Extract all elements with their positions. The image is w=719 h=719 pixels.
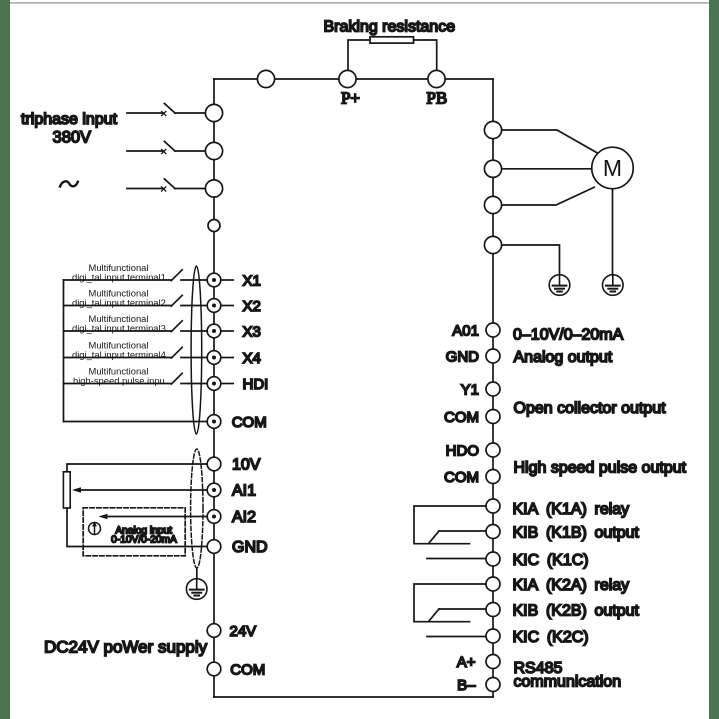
motor M <box>592 147 634 189</box>
slash: X3 switch <box>171 321 182 332</box>
svg-text:KIB (K2B) output: KIB (K2B) output <box>513 602 640 619</box>
terminal 10V <box>207 457 221 471</box>
svg-text:P+: P+ <box>341 89 360 108</box>
terminal P+ <box>339 70 356 87</box>
wire: left DC bus vertical <box>213 79 215 697</box>
switch S1 blade <box>164 103 175 113</box>
svg-text:COM: COM <box>444 409 479 426</box>
terminal HDI <box>207 377 221 391</box>
switch S1 contact x-mark <box>162 111 166 115</box>
svg-text:KIB (K1B) output: KIB (K1B) output <box>513 524 640 541</box>
terminal COM oc <box>486 410 500 424</box>
slash: HDI switch <box>171 373 182 384</box>
shield ellipse: analog inputs (dashed) <box>191 449 203 568</box>
slash: X2 switch <box>171 295 182 306</box>
svg-text:380V: 380V <box>53 129 92 147</box>
wire: braking resistor right riser <box>414 40 437 71</box>
terminal: right bus joint 4 <box>484 236 501 253</box>
terminal 24V <box>207 624 221 638</box>
switch S3 input wire <box>127 188 163 190</box>
switch S2 contact x-mark <box>162 149 166 153</box>
switch S3 contact x-mark <box>162 187 166 191</box>
terminal K2C <box>486 629 500 643</box>
wire: AI2 input <box>106 516 207 518</box>
terminal A01 <box>486 323 500 337</box>
svg-text:COM: COM <box>232 414 267 431</box>
terminal R <box>205 104 222 121</box>
wire: X4 stub <box>221 357 233 359</box>
wire: motor phase W <box>502 187 595 205</box>
terminal COM bottom <box>207 662 221 676</box>
wire: X4 input row <box>64 357 208 359</box>
wire: top bus horizontal <box>214 78 493 80</box>
svg-text:X2: X2 <box>243 298 261 315</box>
wire: X2 stub <box>221 305 233 307</box>
svg-text:COM: COM <box>444 469 479 486</box>
terminal GND analog <box>207 540 221 554</box>
potentiometer body <box>63 472 70 508</box>
relay K2 blade <box>429 609 440 622</box>
ground: shield earth <box>186 579 207 600</box>
svg-text:X3: X3 <box>243 324 261 341</box>
switch S1 input wire <box>127 112 163 114</box>
svg-text:KIC (K2C): KIC (K2C) <box>513 629 589 646</box>
wire: bottom return horizontal <box>214 696 493 698</box>
terminal K2B <box>486 603 500 617</box>
svg-text:High speed pulse output: High speed pulse output <box>514 460 687 477</box>
ground: PE earth <box>549 275 570 296</box>
wire: digital input common vertical <box>63 280 65 422</box>
terminal COM digital <box>207 415 221 429</box>
terminal K1A <box>486 499 500 513</box>
AC tilde symbol <box>60 181 78 186</box>
terminal K1C <box>486 552 500 566</box>
terminal GND output <box>486 349 500 363</box>
terminal AI2 <box>207 510 221 524</box>
top gray rule <box>0 2 719 4</box>
wire: X2 input row <box>64 305 208 307</box>
wire: HDI stub <box>221 383 233 385</box>
switch S3 blade <box>164 179 175 189</box>
svg-text:HDO: HDO <box>446 443 479 460</box>
svg-text:DC24V poWer supply: DC24V poWer supply <box>44 638 208 657</box>
svg-text:digi_tal input terminal3: digi_tal input terminal3 <box>72 322 166 333</box>
label: multifunctional high-speed pulse input <box>73 365 165 386</box>
wire: motor frame to ground <box>612 189 614 275</box>
wire: motor phase U <box>502 130 598 153</box>
terminal T <box>205 180 222 197</box>
svg-text:A01: A01 <box>452 323 479 340</box>
svg-text:digi_tal input terminal1: digi_tal input terminal1 <box>72 271 166 282</box>
svg-text:GND: GND <box>446 349 480 366</box>
wire: switch S2 to terminal S <box>175 150 206 152</box>
svg-text:AI1: AI1 <box>232 483 256 500</box>
svg-text:digi_tal input terminal2: digi_tal input terminal2 <box>72 297 166 308</box>
relay K1 blade <box>429 531 440 544</box>
terminal AI1 <box>207 483 221 497</box>
terminal K2A <box>486 577 500 591</box>
wire: X3 stub <box>221 330 233 332</box>
wire: X1 input row <box>64 279 208 281</box>
current source symbol <box>89 522 101 535</box>
wire: 10V supply to potentiometer <box>67 464 207 472</box>
svg-text:PB: PB <box>426 89 447 108</box>
svg-text:Braking resistance: Braking resistance <box>323 19 455 36</box>
terminal X3 <box>207 324 221 338</box>
label: multifunctional digital input terminal1 <box>72 262 166 283</box>
svg-text:high-speed pulse inpu: high-speed pulse inpu <box>73 375 165 386</box>
terminal: right bus joint 2 <box>484 160 501 177</box>
terminal: small joint <box>208 220 220 232</box>
terminal HDO <box>486 443 500 457</box>
svg-text:Open collector output: Open collector output <box>514 400 667 417</box>
shield ellipse: digital inputs <box>191 266 202 434</box>
terminal A+ <box>486 655 500 669</box>
wire: switch S1 to terminal R <box>175 112 206 114</box>
terminal COM pulse <box>486 470 500 484</box>
switch S2 input wire <box>127 150 163 152</box>
terminal: right bus joint 1 <box>484 121 501 138</box>
slash: X1 switch <box>171 270 182 281</box>
wire: right bus vertical <box>492 79 494 697</box>
svg-text:10V: 10V <box>232 457 261 474</box>
wire: shield to earth <box>196 568 198 579</box>
wire: relay K2 NO to KIB <box>439 608 487 610</box>
terminal: top bus joint <box>257 70 274 87</box>
svg-text:AI2: AI2 <box>232 509 256 526</box>
svg-text:0–10V/0–20mA: 0–10V/0–20mA <box>513 326 624 343</box>
svg-text:0-10V/0-20mA: 0-10V/0-20mA <box>111 535 177 546</box>
slash: X4 switch <box>171 347 182 358</box>
svg-text:triphase input: triphase input <box>21 111 118 128</box>
relay K2 common L-wire <box>414 584 487 622</box>
dashed box: analog input group <box>83 508 185 556</box>
wire: braking resistor left riser <box>348 40 370 71</box>
wire: HDI input row <box>64 383 208 385</box>
switch S2 blade <box>164 141 175 151</box>
svg-text:KIC (K1C): KIC (K1C) <box>513 552 589 569</box>
wire: X3 input row <box>64 330 208 332</box>
svg-text:Analog output: Analog output <box>514 349 613 366</box>
terminal S <box>205 142 222 159</box>
svg-text:X4: X4 <box>243 350 261 367</box>
svg-text:GND: GND <box>232 539 268 556</box>
wire: relay K1 NC to KIC <box>427 558 487 560</box>
svg-text:M: M <box>603 155 622 181</box>
wire: PE to ground <box>502 245 560 275</box>
svg-text:KIA (K1A) relay: KIA (K1A) relay <box>513 501 630 518</box>
arrowhead: AI2 input <box>99 514 108 520</box>
wire: COM input row <box>64 421 208 423</box>
label: multifunctional digital input terminal2 <box>72 287 166 308</box>
terminal X4 <box>207 351 221 365</box>
wire: motor phase V <box>502 168 592 170</box>
svg-text:B–: B– <box>457 677 476 694</box>
arrowhead: AI1 wiper <box>72 487 81 493</box>
wire: potentiometer low side to GND <box>67 508 207 547</box>
label: multifunctional digital input terminal3 <box>72 313 166 334</box>
right green sidebar <box>709 0 719 719</box>
terminal X1 <box>207 273 221 287</box>
terminal Y1 <box>486 382 500 396</box>
svg-text:Y1: Y1 <box>461 382 479 399</box>
svg-text:digi_tal input terminal4: digi_tal input terminal4 <box>72 349 166 360</box>
svg-text:communication: communication <box>514 674 622 691</box>
wire: relay K1 NO to KIB <box>439 530 487 532</box>
ground: motor earth <box>603 275 624 296</box>
resistor: braking resistance <box>370 37 414 43</box>
svg-text:HDI: HDI <box>243 376 269 393</box>
terminal B- <box>486 678 500 692</box>
wire: X1 stub <box>221 279 233 281</box>
terminal X2 <box>207 299 221 313</box>
svg-text:KIA (K2A) relay: KIA (K2A) relay <box>513 577 630 594</box>
svg-text:24V: 24V <box>230 623 257 640</box>
svg-text:A+: A+ <box>457 654 476 671</box>
terminal K1B <box>486 525 500 539</box>
terminal: right bus joint 3 <box>484 196 501 213</box>
left green sidebar <box>0 0 10 719</box>
label: multifunctional digital input terminal4 <box>72 339 166 360</box>
wire: switch S3 to terminal T <box>175 188 206 190</box>
wire: relay K2 NC to KIC <box>427 636 487 638</box>
terminal PB <box>428 70 445 87</box>
svg-text:COM: COM <box>230 661 265 678</box>
wire: AI1 wiper <box>80 489 207 491</box>
relay K1 common L-wire <box>414 506 487 544</box>
svg-text:X1: X1 <box>243 273 261 290</box>
